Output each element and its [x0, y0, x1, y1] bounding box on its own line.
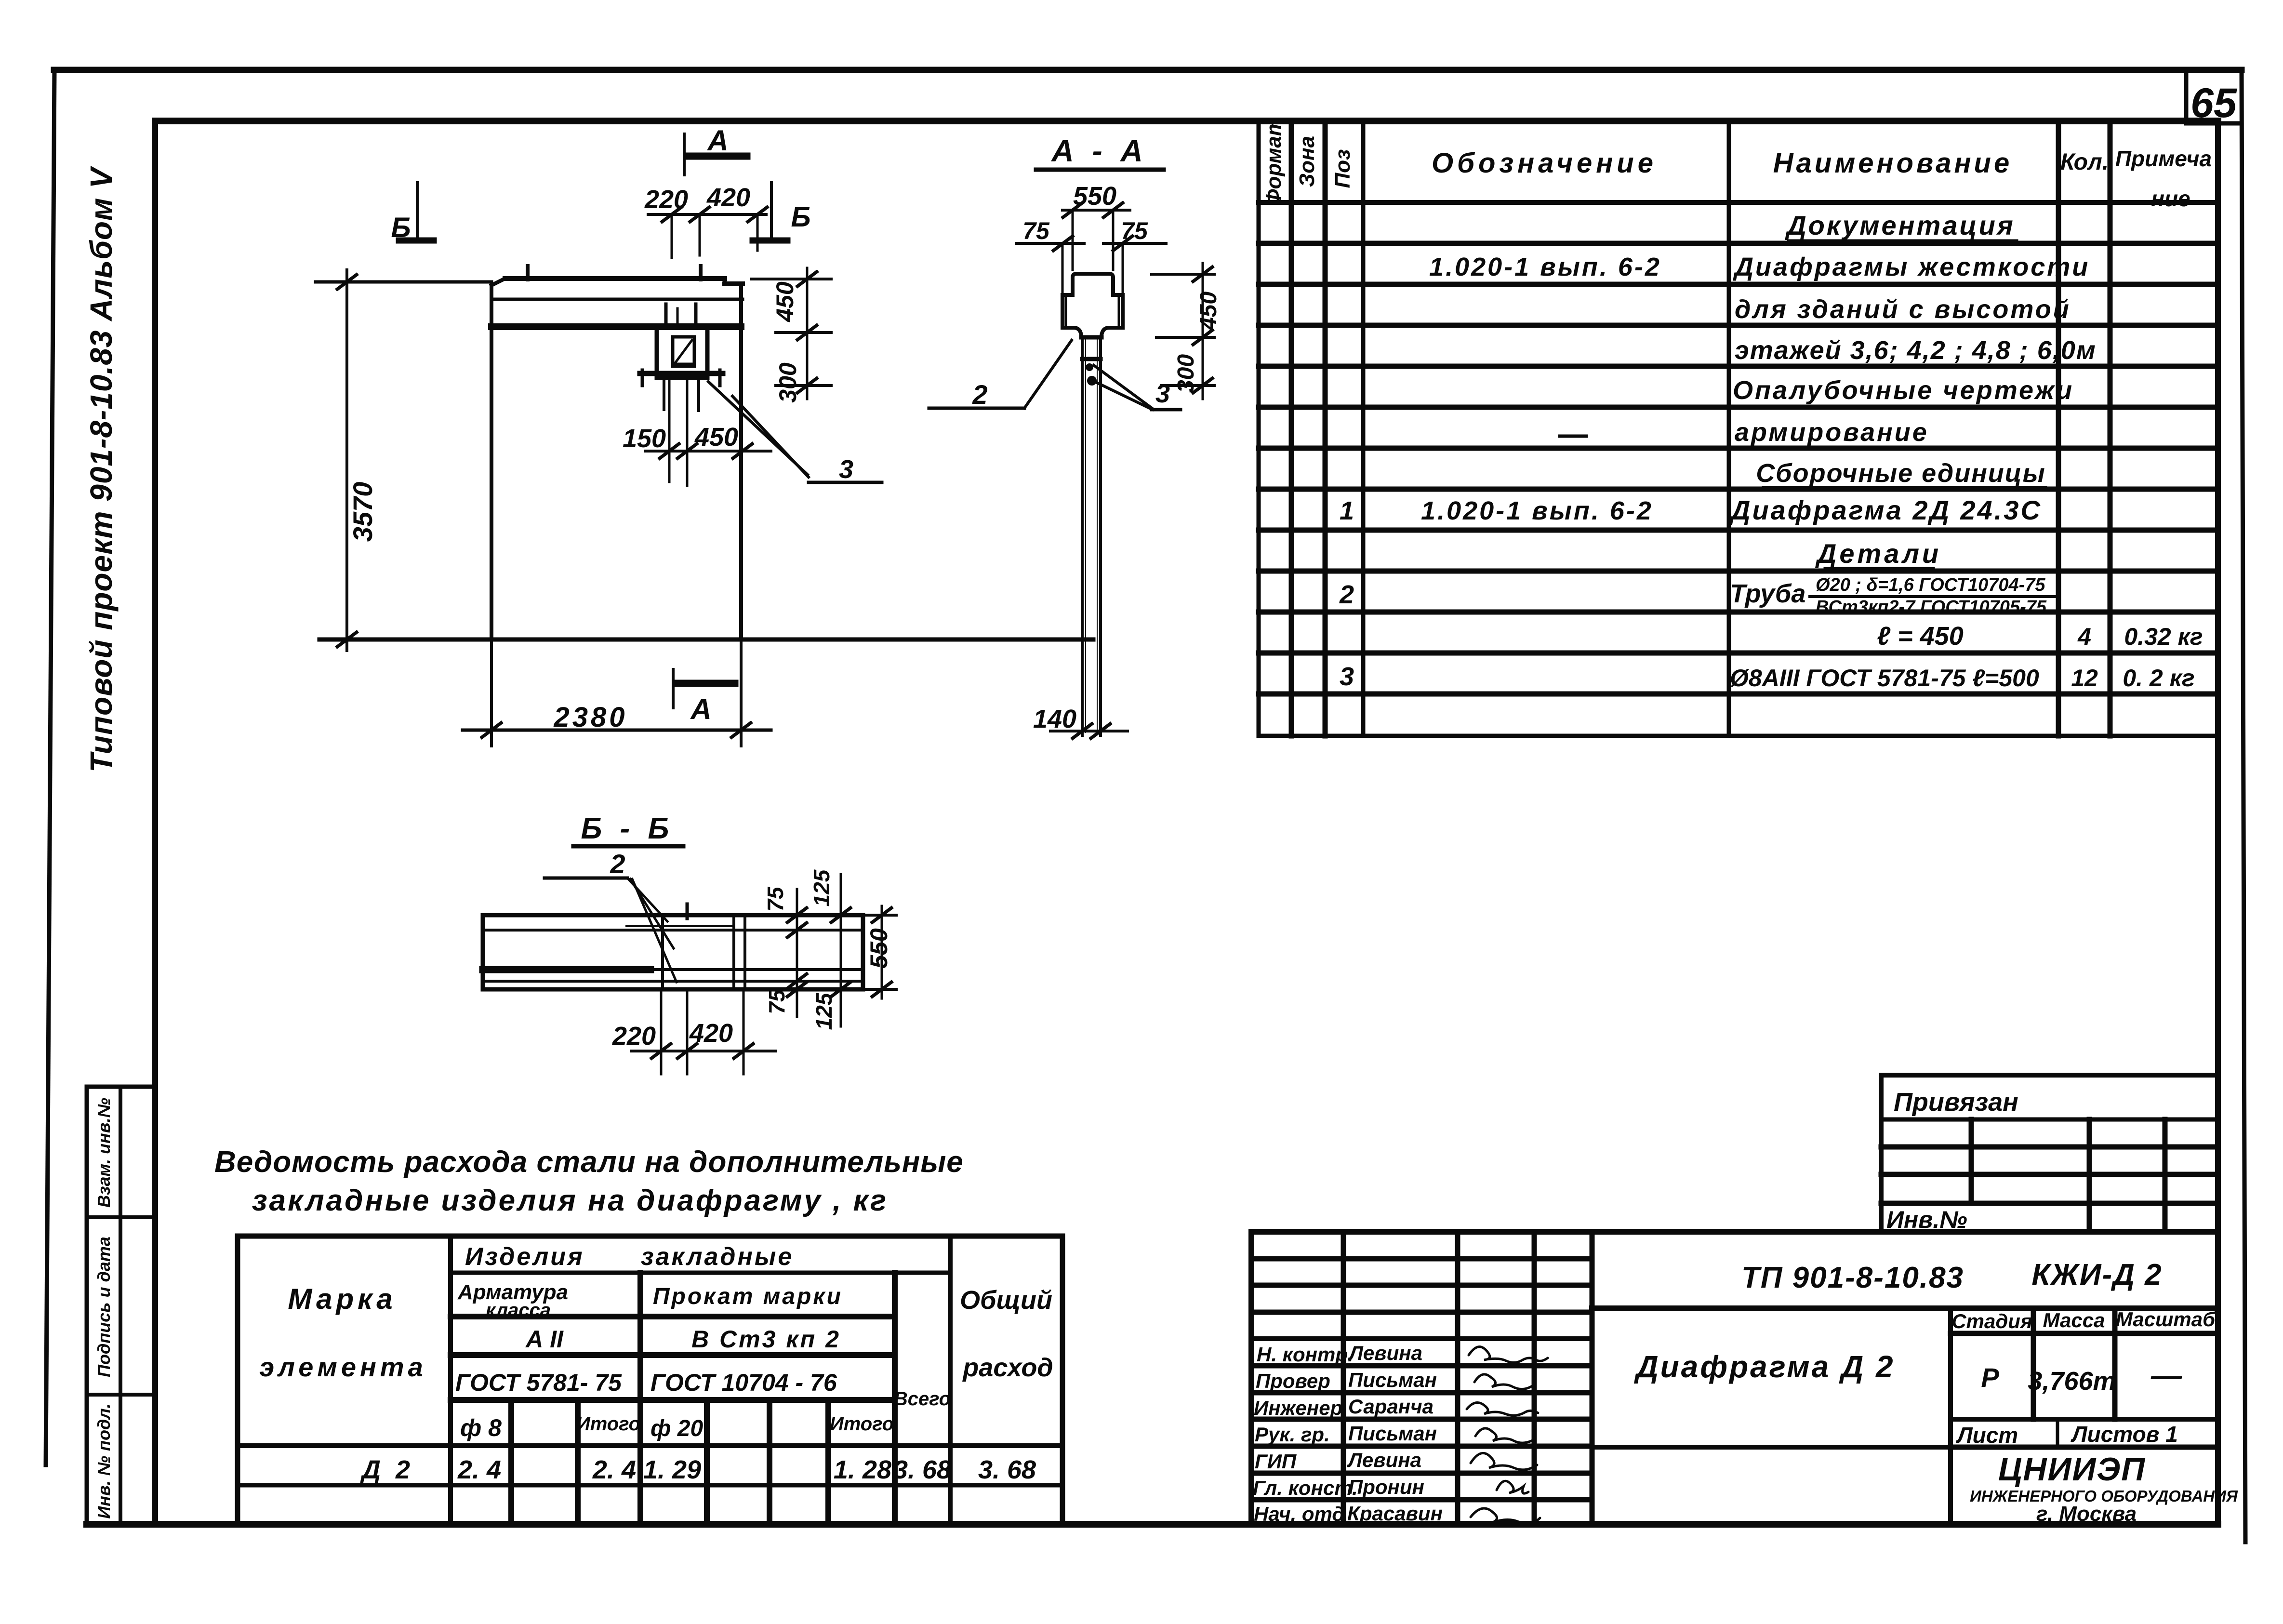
- dim 75 75 (A-A): [1017, 217, 1166, 299]
- svg-text:4: 4: [2077, 623, 2091, 650]
- svg-text:420: 420: [689, 1019, 733, 1048]
- svg-text:2: 2: [610, 849, 625, 879]
- svg-text:ГОСТ 5781- 75: ГОСТ 5781- 75: [455, 1369, 622, 1396]
- dim 140 (A-A bottom): [1033, 705, 1128, 738]
- title block signatures (script): [1467, 1347, 1548, 1524]
- dim 550 (A-A): [1062, 182, 1130, 270]
- svg-text:Обозначение: Обозначение: [1432, 147, 1657, 179]
- svg-text:140: 140: [1033, 705, 1076, 733]
- pipe cross section shape: [1062, 274, 1123, 337]
- svg-text:Типовой проект 901-8-10.83: Типовой проект 901-8-10.83 Альбом V: [84, 165, 119, 772]
- svg-text:Б: Б: [791, 201, 810, 233]
- svg-text:Диафрагма 2Д 24.3С: Диафрагма 2Д 24.3С: [1729, 495, 2042, 525]
- dim 220 420 (Б-Б bottom): [612, 989, 776, 1074]
- dim 450 300 (right of A-A): [1152, 263, 1221, 399]
- section Б-Б title: [573, 812, 683, 846]
- svg-text:Диафрагмы жесткости: Диафрагмы жесткости: [1733, 253, 2090, 281]
- specification table header texts: [1262, 117, 2212, 211]
- svg-text:3: 3: [1340, 662, 1354, 691]
- svg-text:150: 150: [623, 424, 666, 453]
- svg-text:1: 1: [1340, 496, 1354, 525]
- svg-text:Саранча: Саранча: [1348, 1395, 1434, 1418]
- left margin project label: [84, 165, 119, 772]
- steel consumption table grid: [238, 1236, 1062, 1523]
- svg-text:Всего: Всего: [894, 1388, 951, 1410]
- svg-text:Сборочные единицы: Сборочные единицы: [1756, 459, 2046, 488]
- svg-text:Привязан: Привязан: [1894, 1088, 2018, 1117]
- svg-text:300: 300: [1173, 354, 1199, 393]
- pipe column: [1082, 337, 1101, 735]
- svg-text:2: 2: [972, 379, 987, 410]
- svg-text:1. 28: 1. 28: [834, 1455, 891, 1484]
- svg-text:Итого: Итого: [576, 1413, 640, 1435]
- steel consumption table title: [214, 1145, 964, 1217]
- dim 220 420 (top): [644, 183, 767, 258]
- svg-text:Наименование: Наименование: [1773, 147, 2012, 179]
- svg-text:75: 75: [764, 989, 789, 1014]
- svg-text:3570: 3570: [347, 482, 378, 542]
- svg-text:ГОСТ 10704 - 76: ГОСТ 10704 - 76: [650, 1369, 837, 1396]
- svg-text:ф 8: ф 8: [460, 1414, 502, 1441]
- stray level mark: [1560, 435, 1586, 438]
- svg-text:ние: ние: [2151, 186, 2190, 211]
- section A-A title: [1036, 133, 1164, 170]
- dim 150 450 (mid): [623, 423, 771, 458]
- svg-text:Стадия: Стадия: [1951, 1310, 2032, 1332]
- svg-text:г. Москва: г. Москва: [2036, 1502, 2137, 1526]
- svg-text:ℓ = 450: ℓ = 450: [1877, 622, 1964, 651]
- svg-text:А: А: [706, 124, 728, 157]
- svg-text:0. 2 кг: 0. 2 кг: [2123, 665, 2194, 692]
- specification table rows text: [1339, 210, 2203, 692]
- embedded plate item 1: [640, 304, 723, 486]
- svg-text:75: 75: [763, 886, 788, 912]
- panel edge bar: [483, 904, 863, 989]
- svg-text:0.32 кг: 0.32 кг: [2124, 623, 2203, 650]
- svg-text:Ø8АIII ГОСТ 5781-75 ℓ=500: Ø8АIII ГОСТ 5781-75 ℓ=500: [1730, 665, 2039, 692]
- svg-text:Нач. отд: Нач. отд: [1254, 1503, 1344, 1525]
- svg-text:Взам. инв.№: Взам. инв.№: [94, 1098, 114, 1208]
- svg-text:класса: класса: [486, 1300, 551, 1321]
- svg-text:3: 3: [839, 455, 853, 484]
- svg-text:Гл. конст.: Гл. конст.: [1253, 1477, 1358, 1499]
- svg-text:—: —: [2150, 1358, 2182, 1393]
- svg-text:Листов 1: Листов 1: [2071, 1422, 2178, 1447]
- page number box 65: [2186, 72, 2242, 126]
- svg-text:ТП 901-8-10.83: ТП 901-8-10.83: [1741, 1261, 1964, 1294]
- svg-text:Левина: Левина: [1347, 1449, 1421, 1471]
- leader item 2 (A-A): [929, 340, 1072, 410]
- dims 75 125 550 (Б-Б right): [763, 869, 896, 1030]
- svg-text:Поз: Поз: [1331, 149, 1354, 188]
- rod dots in column: [1086, 363, 1097, 386]
- svg-text:Общий: Общий: [960, 1286, 1052, 1315]
- svg-text:закладные: закладные: [641, 1243, 794, 1271]
- svg-text:Ø20 ; δ=1,6 ГОСТ10704-75: Ø20 ; δ=1,6 ГОСТ10704-75: [1816, 575, 2045, 595]
- svg-text:ф 20: ф 20: [650, 1416, 703, 1441]
- svg-text:450: 450: [694, 423, 738, 452]
- svg-text:1. 29: 1. 29: [643, 1455, 701, 1484]
- svg-text:12: 12: [2071, 665, 2098, 692]
- svg-text:Подпись и дата: Подпись и дата: [94, 1237, 114, 1377]
- svg-text:для зданий с высотой: для зданий с высотой: [1735, 295, 2071, 324]
- svg-text:Инженер: Инженер: [1254, 1397, 1342, 1419]
- svg-text:125: 125: [809, 869, 834, 906]
- svg-text:75: 75: [1121, 217, 1148, 244]
- leader item 3 (A-A): [1094, 365, 1181, 410]
- svg-text:Марка: Марка: [288, 1283, 396, 1315]
- specification underlines & fraction bar: [1764, 241, 2057, 597]
- svg-text:220: 220: [612, 1022, 656, 1051]
- svg-text:300: 300: [774, 362, 801, 403]
- svg-text:Итого: Итого: [830, 1413, 894, 1435]
- svg-text:Примеча: Примеча: [2115, 146, 2212, 171]
- svg-text:ВСт3кп2-7 ГОСТ10705-75: ВСт3кп2-7 ГОСТ10705-75: [1816, 597, 2047, 617]
- svg-text:450: 450: [771, 281, 798, 322]
- title block signature rows: [1253, 1342, 1443, 1525]
- svg-text:420: 420: [706, 183, 750, 212]
- svg-text:закладные изделия на: закладные изделия на диафрагму , кг: [252, 1184, 888, 1217]
- svg-text:ЦНИИЭП: ЦНИИЭП: [1998, 1451, 2146, 1488]
- svg-text:элемента: элемента: [259, 1352, 426, 1382]
- svg-text:Формат: Формат: [1262, 117, 1286, 206]
- privyazan table: [1881, 1075, 2216, 1232]
- dim 450 300 (right of elevation): [752, 268, 831, 403]
- svg-text:расход: расход: [962, 1353, 1053, 1382]
- svg-text:Письман: Письман: [1348, 1422, 1437, 1445]
- svg-text:Масса: Масса: [2043, 1309, 2105, 1331]
- svg-text:КЖИ-Д 2: КЖИ-Д 2: [2031, 1258, 2162, 1291]
- dim 3570 (left): [316, 270, 491, 651]
- section marker Б right: [753, 183, 811, 241]
- svg-text:Детали: Детали: [1815, 538, 1941, 569]
- svg-text:1.020-1 вып. 6-2: 1.020-1 вып. 6-2: [1421, 496, 1653, 525]
- svg-text:3,766т: 3,766т: [2028, 1367, 2116, 1396]
- svg-text:450: 450: [1196, 292, 1221, 331]
- leader item 3 (elevation): [708, 382, 882, 484]
- svg-text:Б: Б: [391, 212, 411, 243]
- section marker A top: [684, 124, 747, 175]
- svg-text:125: 125: [811, 992, 836, 1030]
- svg-text:Красавин: Красавин: [1347, 1502, 1443, 1525]
- svg-text:ГИП: ГИП: [1255, 1450, 1297, 1473]
- svg-text:2: 2: [1339, 580, 1354, 609]
- svg-text:А - А: А - А: [1050, 133, 1147, 168]
- svg-text:Изделия: Изделия: [465, 1243, 584, 1271]
- svg-text:Опалубочные чертежи: Опалубочные чертежи: [1733, 376, 2074, 405]
- section marker A bottom: [673, 669, 735, 725]
- svg-text:Масштаб: Масштаб: [2116, 1308, 2216, 1331]
- svg-text:1.020-1 вып. 6-2: 1.020-1 вып. 6-2: [1429, 253, 1661, 281]
- svg-text:Р: Р: [1981, 1362, 1999, 1393]
- svg-text:Б - Б: Б - Б: [581, 812, 674, 845]
- svg-text:Лист: Лист: [1956, 1423, 2018, 1448]
- title block right part texts: [1633, 1258, 2238, 1526]
- svg-text:Рук. гр.: Рук. гр.: [1255, 1423, 1330, 1446]
- title block frame: [1251, 1232, 2216, 1524]
- svg-text:В Ст3 кп 2: В Ст3 кп 2: [691, 1326, 841, 1353]
- dim 2380 (bottom): [463, 639, 771, 746]
- specification table grid: [1259, 121, 2218, 736]
- svg-text:Провер: Провер: [1256, 1370, 1330, 1392]
- lifting loop ticks: [528, 266, 701, 280]
- svg-text:2. 4: 2. 4: [592, 1455, 636, 1484]
- svg-text:Зона: Зона: [1295, 136, 1319, 187]
- leader item 2 (Б-Б): [544, 849, 677, 982]
- svg-text:этажей 3,6; 4,2 ; 4,8 ; 6,0м: этажей 3,6; 4,2 ; 4,8 ; 6,0м: [1735, 336, 2097, 365]
- level line (bottom): [319, 638, 1093, 642]
- svg-text:Левина: Левина: [1348, 1342, 1422, 1364]
- svg-text:550: 550: [865, 928, 892, 969]
- svg-text:Документация: Документация: [1785, 210, 2015, 240]
- svg-text:220: 220: [644, 185, 688, 214]
- left margin stamp strip: [87, 1087, 155, 1524]
- svg-text:Ведомость расхода стали: Ведомость расхода стали на дополнительны…: [214, 1145, 964, 1179]
- svg-text:Диафрагма Д 2: Диафрагма Д 2: [1633, 1349, 1895, 1384]
- svg-text:2. 4: 2. 4: [457, 1455, 501, 1484]
- svg-text:3. 68: 3. 68: [893, 1455, 951, 1484]
- svg-text:550: 550: [1073, 182, 1116, 211]
- svg-text:А: А: [690, 693, 711, 725]
- svg-text:75: 75: [1022, 217, 1050, 244]
- svg-text:армирование: армирование: [1735, 418, 1929, 447]
- wall panel outline: [491, 279, 743, 639]
- slab joint lines: [491, 299, 743, 327]
- svg-text:3. 68: 3. 68: [978, 1455, 1036, 1484]
- svg-text:Труба: Труба: [1730, 579, 1805, 608]
- svg-text:2380: 2380: [553, 702, 627, 733]
- svg-text:Кол.: Кол.: [2060, 149, 2109, 175]
- svg-text:А II: А II: [525, 1326, 564, 1353]
- steel consumption table texts: [259, 1243, 1053, 1484]
- section marker Б left: [391, 183, 434, 243]
- svg-text:Д 2: Д 2: [360, 1455, 414, 1484]
- svg-text:Инв. № подл.: Инв. № подл.: [94, 1403, 114, 1518]
- svg-text:3: 3: [1155, 379, 1170, 408]
- svg-text:Пронин: Пронин: [1348, 1476, 1424, 1498]
- svg-text:Письман: Письман: [1348, 1369, 1437, 1391]
- svg-text:Прокат марки: Прокат марки: [653, 1284, 843, 1309]
- svg-text:Н. контр.: Н. контр.: [1257, 1343, 1354, 1366]
